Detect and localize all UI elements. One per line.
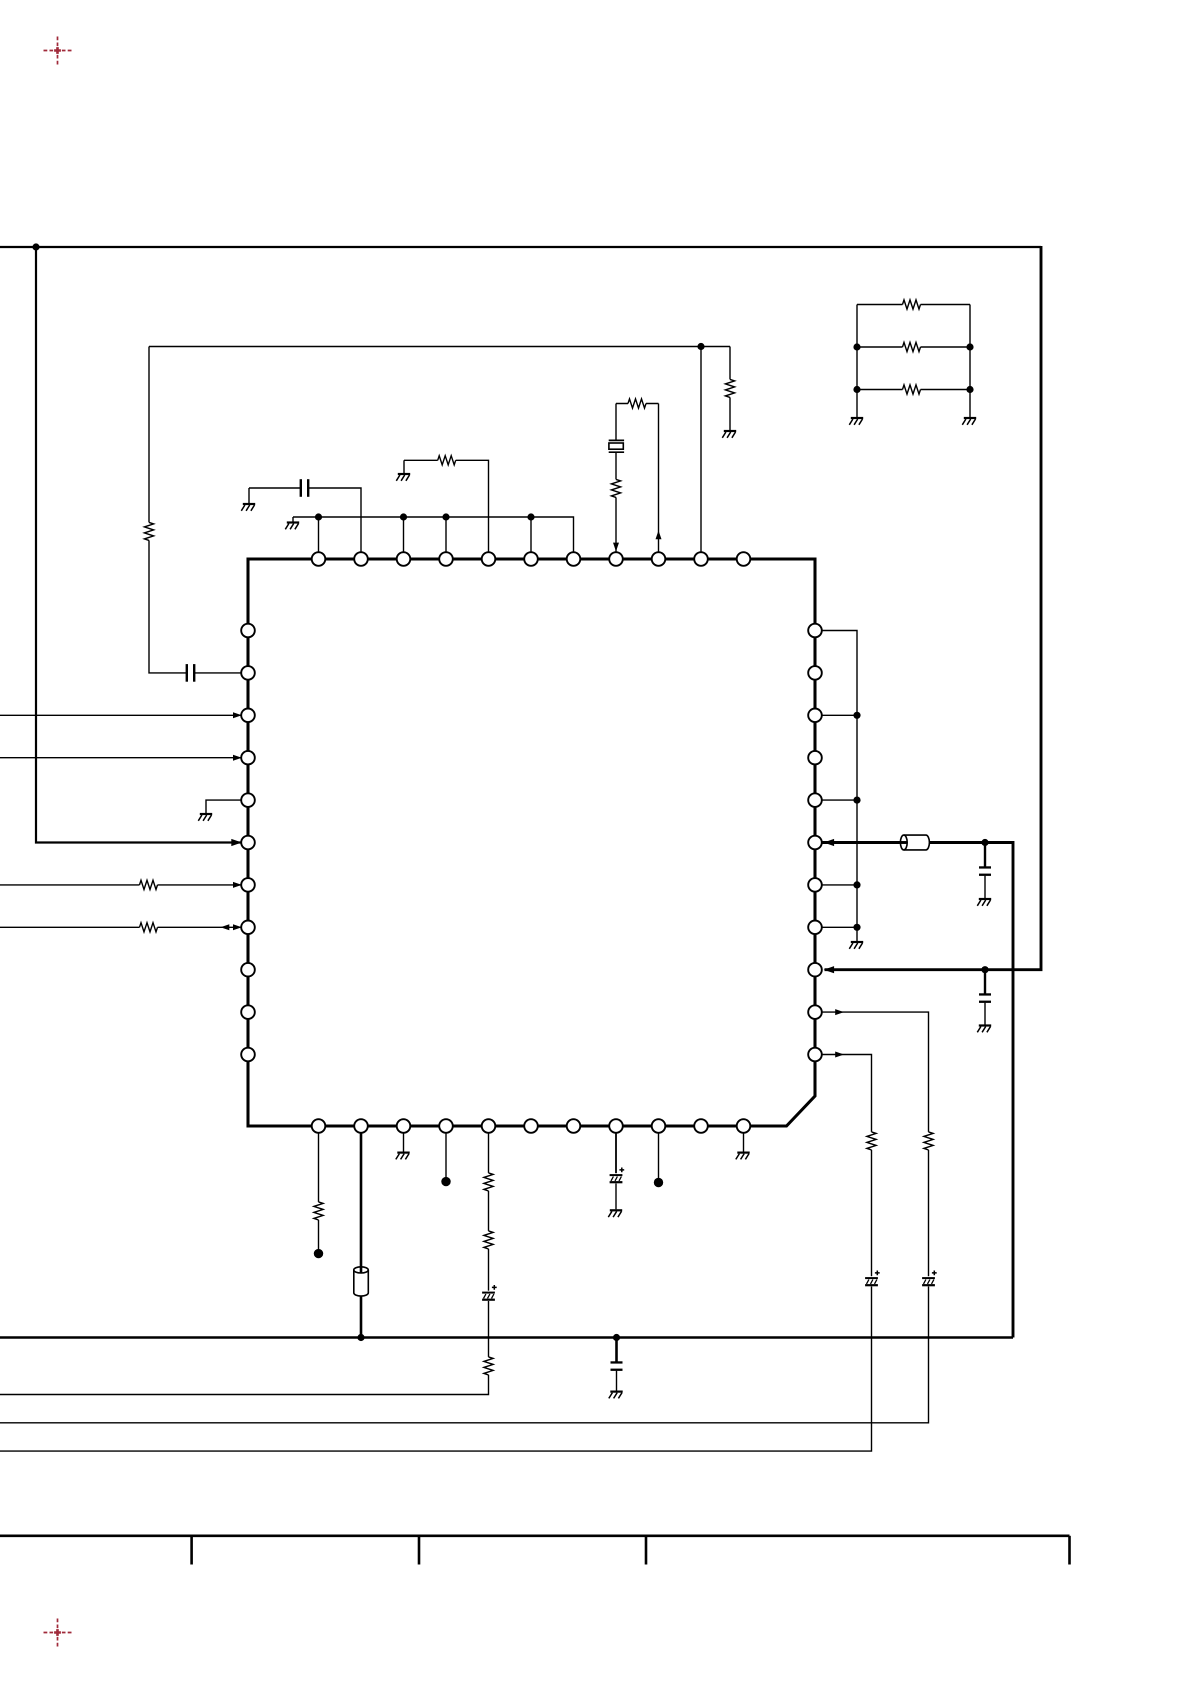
pin top 10	[694, 552, 708, 566]
pin right 7	[808, 878, 822, 892]
wire series resistor into top pin 8 with down arrow	[615, 497, 617, 551]
arrow into left pin row 6	[231, 839, 242, 846]
ground under R-osc-pullup	[722, 430, 736, 438]
wire rail to resistor R-osc-pullup	[729, 347, 731, 380]
pin right 8	[808, 921, 822, 935]
wire right pin bus	[823, 631, 858, 942]
pin bottom 7	[567, 1119, 581, 1133]
pin bottom 4	[439, 1119, 453, 1133]
resistor R-bot5c	[484, 1357, 493, 1375]
wire R-bot5a to R-bot5b	[488, 1191, 490, 1231]
wire crystal to series resistor	[615, 452, 617, 479]
resistor R-osc-series	[611, 479, 620, 497]
pin top 9	[652, 552, 666, 566]
polarized capacitor C-out10	[922, 1271, 937, 1287]
pin top 5	[482, 552, 496, 566]
pin right 11	[808, 1048, 822, 1062]
frame tick 3	[645, 1536, 648, 1565]
junction row9 cap tap	[981, 966, 988, 973]
pin bottom 2	[354, 1119, 368, 1133]
pin left 7	[241, 878, 255, 892]
wire ground lead of R-top	[403, 460, 405, 473]
wire right pin 7 to bus	[823, 884, 858, 886]
pin left 2	[241, 666, 255, 680]
stub bus to top pin 3	[403, 517, 405, 552]
resistor R-left-chain	[144, 522, 153, 540]
pin right 6	[808, 836, 822, 850]
wire top border to right pin row 9	[0, 246, 1041, 970]
wire bottom pin 11 to ground	[743, 1133, 745, 1151]
pin left 4	[241, 751, 255, 765]
wire R-top left	[404, 459, 438, 461]
ground under C-right2	[977, 1024, 991, 1032]
wire R-top to top pin 5	[456, 460, 489, 552]
wire crystal left lead	[615, 404, 617, 441]
pin bottom 9	[652, 1119, 666, 1133]
wire bead to corner and down to bottom bus	[929, 843, 1013, 1338]
ground under R-top	[396, 473, 410, 481]
junction on oscillator rail	[697, 343, 704, 350]
wire bottom pin 3 to ground	[403, 1133, 405, 1151]
junction bottom bus cap	[613, 1334, 620, 1341]
pin top 1	[312, 552, 326, 566]
pin right 2	[808, 666, 822, 680]
junction bus pin4	[442, 513, 449, 520]
wire bottom bus	[0, 1336, 1013, 1338]
pin right 3	[808, 709, 822, 723]
junction bus right pin5	[853, 797, 860, 804]
crystal X1	[609, 440, 624, 452]
wire R-bot5b to C-bot5	[488, 1249, 490, 1291]
junction bottom bus bead	[357, 1334, 364, 1341]
pin top 3	[397, 552, 411, 566]
stub bus to top pin 4	[445, 517, 447, 552]
wire parallel-resistor right rail	[969, 305, 971, 418]
ground under bottom pin 11	[736, 1152, 750, 1160]
wire input row with resistor to left pin 7	[0, 884, 241, 886]
pin bottom 11	[737, 1119, 751, 1133]
wire left pin 5 to ground	[206, 800, 241, 813]
polarized capacitor C-out11	[865, 1271, 880, 1287]
wire C-right2 to ground	[984, 1003, 986, 1025]
wire input row to left pin 3	[0, 714, 241, 716]
junction bead row cap tap	[981, 839, 988, 846]
wire right pin 5 to bus	[823, 799, 858, 801]
junction right rail row3	[966, 386, 973, 393]
pin bottom 6	[524, 1119, 538, 1133]
pin top 6	[524, 552, 538, 566]
terminal dot bottom pin 1	[314, 1249, 323, 1258]
wire R-left-chain to capacitor	[149, 540, 186, 673]
capacitor C-bus	[611, 1361, 623, 1371]
ground under bottom pin 3	[396, 1152, 410, 1160]
ground under C-right1	[977, 898, 991, 906]
capacitor C-top	[300, 479, 310, 497]
arrow into right pin row 9	[824, 966, 835, 973]
terminal dot bottom pin 4	[441, 1177, 450, 1186]
wire left chain vertical	[148, 347, 150, 523]
wire R-bot5c to left edge	[0, 1375, 489, 1395]
wire R-bot1 to terminal	[318, 1220, 320, 1249]
wire R-out11 to C-out11	[871, 1150, 873, 1276]
wire rail junction down to top pin 10	[700, 347, 702, 552]
wire oscillator top rail	[149, 346, 730, 348]
resistor R-net1	[903, 300, 921, 309]
ground at left pin 5	[198, 813, 212, 821]
wire parallel-resistor left rail	[856, 305, 858, 418]
wire C-top to top pin 2	[309, 488, 361, 552]
ground at bus left end	[285, 521, 299, 529]
wire input row to left pin 4	[0, 757, 241, 759]
ground under right pin bus	[849, 941, 863, 949]
wire bottom pin 5 to R1	[488, 1133, 490, 1173]
junction left rail row3	[853, 386, 860, 393]
arrow out of right pin 11	[835, 1052, 844, 1058]
wire right pin 11 output	[823, 1055, 872, 1132]
resistor R-bot1	[314, 1202, 323, 1220]
polarized capacitor C-bot5	[482, 1285, 497, 1301]
junction bus pin6	[527, 513, 534, 520]
pin left 10	[241, 1005, 255, 1019]
junction bus pin3	[400, 513, 407, 520]
arrow into right pin 6	[824, 839, 835, 846]
wire right pin 8 to bus	[823, 926, 858, 928]
wire top pin bus	[293, 517, 574, 552]
pin left 9	[241, 963, 255, 977]
wire resistor row 2	[857, 346, 970, 348]
wire C-left to left pin 2	[195, 672, 241, 674]
pin bottom 10	[694, 1119, 708, 1133]
pin top 8	[609, 552, 623, 566]
resistor R-top	[438, 456, 456, 465]
frame tick right end	[1068, 1536, 1071, 1565]
wire C-bot8 to ground	[615, 1184, 617, 1210]
wire C-out10 down and left to edge	[0, 1287, 929, 1423]
resistor R-out11	[867, 1132, 876, 1150]
junction bus right pin7	[853, 881, 860, 888]
frame tick 1	[190, 1536, 193, 1565]
registration mark top-left	[44, 37, 72, 65]
capacitor C-right2	[979, 993, 991, 1003]
resistor R-bot5b	[484, 1231, 493, 1249]
wire bottom pin 4 to terminal	[445, 1133, 447, 1177]
wire right pin 10 output	[823, 1012, 929, 1132]
wire right leg into top pin 9 with up arrow	[658, 404, 660, 552]
wire C-right1 to ground	[984, 876, 986, 898]
arrow into left pin 7	[233, 882, 242, 888]
pin left 8	[241, 921, 255, 935]
pin top 7	[567, 552, 581, 566]
arrow left on left pin 8 row	[221, 924, 230, 930]
junction left rail row2	[853, 343, 860, 350]
terminal dot bottom pin 9	[654, 1178, 663, 1187]
junction node A on top border	[32, 243, 39, 250]
bottom frame line	[0, 1535, 1070, 1538]
junction bus right pin3	[853, 712, 860, 719]
ground under right rail	[962, 417, 976, 425]
pin right 9	[808, 963, 822, 977]
resistor R-bot5a	[484, 1173, 493, 1191]
ferrite bead L-right	[900, 835, 929, 850]
pin top 11	[737, 552, 751, 566]
arrow down into top pin 8	[613, 543, 619, 552]
arrow right into left pin 8	[233, 924, 242, 930]
ferrite bead L-bottom	[354, 1267, 369, 1296]
pin top 2	[354, 552, 368, 566]
wire bus junction to C-bus	[615, 1338, 618, 1362]
wire R-osc-pullup to ground	[729, 397, 731, 430]
wire C-out11 down and left to edge	[0, 1287, 872, 1452]
pin right 1	[808, 624, 822, 638]
junction bus right pin8	[853, 924, 860, 931]
arrow out of right pin 10	[835, 1009, 844, 1015]
wire C-bot5 crossing bus to R-bot5c	[488, 1301, 490, 1357]
pin right 10	[808, 1005, 822, 1019]
wire bottom pin 8 to C-bot8	[615, 1133, 617, 1173]
resistor R-left7	[140, 880, 158, 889]
resistor R-out10	[924, 1132, 933, 1150]
arrow into left pin 4	[233, 755, 242, 761]
wire right pin 3 to bus	[823, 714, 858, 716]
wire tap to C-right2	[984, 970, 986, 994]
pin left 5	[241, 793, 255, 807]
wire C-top left	[249, 487, 300, 489]
pin bottom 1	[312, 1119, 326, 1133]
wire input row with resistor to left pin 8	[0, 926, 241, 928]
ground under left rail	[849, 417, 863, 425]
pin right 4	[808, 751, 822, 765]
pin left 11	[241, 1048, 255, 1062]
pin left 6	[241, 836, 255, 850]
polarized capacitor C-bot8	[610, 1168, 625, 1184]
wire C-bus to ground	[616, 1371, 618, 1391]
resistor R-left8	[140, 923, 158, 932]
pin right 5	[808, 793, 822, 807]
resistor R-net2	[903, 342, 921, 351]
arrow into left pin 3	[233, 712, 242, 718]
resistor R-feedback	[628, 399, 646, 408]
stub bus to top pin 6	[530, 517, 532, 552]
wire right pin 6 to bead	[823, 841, 902, 844]
wire bottom pin 2 to bead	[360, 1133, 363, 1271]
wire ground lead of C-top	[248, 488, 250, 503]
wire resistor row 3	[857, 389, 970, 391]
ground under C-bus	[609, 1391, 623, 1399]
ground under C-bot8	[608, 1209, 622, 1217]
wire feedback resistor row	[616, 403, 659, 405]
IC U1 outline	[248, 559, 815, 1126]
pin bottom 3	[397, 1119, 411, 1133]
wire bottom pin 1 to resistor	[318, 1133, 320, 1202]
wire from node A down into left pin row 6	[36, 247, 241, 843]
pin top 4	[439, 552, 453, 566]
capacitor C-right1	[979, 866, 991, 876]
pin bottom 8	[609, 1119, 623, 1133]
frame tick 2	[418, 1536, 421, 1565]
pin left 1	[241, 624, 255, 638]
pin bottom 5	[482, 1119, 496, 1133]
junction bus pin1	[315, 513, 322, 520]
wire tap to C-right1	[984, 843, 986, 867]
stub bus to top pin 1	[318, 517, 320, 552]
wire bottom pin 9 to terminal	[658, 1133, 660, 1178]
wire R-out10 to C-out10	[928, 1150, 930, 1276]
arrow up on right leg	[656, 531, 662, 540]
junction right rail row2	[966, 343, 973, 350]
pin left 3	[241, 709, 255, 723]
wire resistor row 1	[857, 304, 970, 306]
resistor R-osc-pullup	[725, 379, 734, 397]
wire bead to bottom bus	[360, 1296, 363, 1338]
resistor R-net3	[903, 385, 921, 394]
ground under C-top	[241, 503, 255, 511]
registration mark bottom-left	[44, 1619, 72, 1647]
capacitor C-left	[186, 664, 196, 682]
